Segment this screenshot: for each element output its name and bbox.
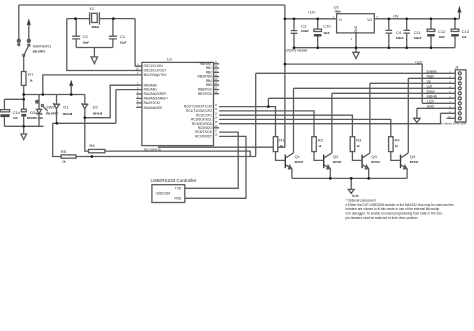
wire crystal rail xyxy=(67,18,135,20)
ground (crystal) xyxy=(91,48,97,64)
svg-text:D3: D3 xyxy=(30,110,36,115)
pin RB1 xyxy=(206,65,219,70)
svg-text:R2: R2 xyxy=(318,137,324,142)
wire J1 row7 xyxy=(422,102,455,104)
svg-text:+12V: +12V xyxy=(308,10,316,14)
svg-text:BC547: BC547 xyxy=(371,160,380,164)
pin RB3/PGM xyxy=(198,74,220,79)
pin RB0/INT xyxy=(200,61,219,66)
wire switch common to R7 xyxy=(23,56,25,71)
svg-text:+5V: +5V xyxy=(393,15,400,19)
node J1 pin labels xyxy=(427,70,437,109)
capacitor C10 xyxy=(314,19,331,48)
wire RC7 to converter RXD xyxy=(185,136,246,198)
wire RC3 to R4 xyxy=(219,119,391,136)
svg-text:RA0/AN0: RA0/AN0 xyxy=(144,83,158,87)
ground (emitter rail) xyxy=(348,178,354,193)
svg-text:1k: 1k xyxy=(318,144,322,148)
wire switch throw 1 drop xyxy=(18,5,20,39)
svg-text:R6: R6 xyxy=(89,143,95,148)
svg-text:10nF: 10nF xyxy=(439,35,446,39)
resistor R2 xyxy=(312,137,324,152)
capacitor C11 xyxy=(403,19,421,48)
pin RC4/SDI/SDA xyxy=(192,121,218,126)
svg-text:1k: 1k xyxy=(62,159,66,163)
svg-text:J1: J1 xyxy=(455,65,460,70)
resistor R1 xyxy=(273,137,285,152)
regulator U2 7805 xyxy=(333,4,379,40)
pin OSC2/CLKOUT xyxy=(136,68,166,73)
svg-text:# Either the DLP-USB232M modul: # Either the DLP-USB232M module or the M… xyxy=(346,203,454,207)
svg-text:R4: R4 xyxy=(395,137,401,142)
transistor Q1 xyxy=(276,152,304,179)
svg-text:RA3/AN3/VREF+: RA3/AN3/VREF+ xyxy=(144,97,169,101)
svg-text:7805: 7805 xyxy=(335,10,342,14)
wire J1 row4 from Q1 xyxy=(294,88,456,153)
power flag +5V above D1/D2 xyxy=(69,80,73,95)
wire top +12V rail xyxy=(19,4,285,6)
wire left branch to C14 xyxy=(4,98,23,100)
wire MCLR run xyxy=(43,75,142,95)
svg-text:U2: U2 xyxy=(334,4,340,9)
svg-text:1nF: 1nF xyxy=(462,35,467,39)
node notes text xyxy=(346,194,454,220)
svg-text:MCLR/Vpp/THV: MCLR/Vpp/THV xyxy=(144,73,168,77)
svg-text:Enable: Enable xyxy=(427,70,437,74)
svg-text:Q3: Q3 xyxy=(371,154,377,159)
svg-text:1k: 1k xyxy=(30,78,34,82)
svg-text:C13: C13 xyxy=(462,29,470,34)
svg-text:C10: C10 xyxy=(323,24,331,29)
svg-text:1nF: 1nF xyxy=(13,116,18,120)
pin RC3/SCK/SCL xyxy=(191,117,218,122)
wire +12V feed row to J1 pin7 xyxy=(285,19,422,147)
wire OSC2 route xyxy=(67,19,142,71)
wire emitter rail xyxy=(292,177,407,179)
resistor R7 xyxy=(21,72,34,86)
svg-text:pin-headers must be switched t: pin-headers must be switched to their ot… xyxy=(346,216,419,220)
svg-text:Left: Left xyxy=(427,85,432,89)
svg-text:1k: 1k xyxy=(395,144,399,148)
svg-text:R5: R5 xyxy=(61,149,67,154)
svg-text:Down: Down xyxy=(427,90,435,94)
pin RB2 xyxy=(206,70,219,75)
svg-text:RA1/AN1: RA1/AN1 xyxy=(144,88,158,92)
wire R5 output line xyxy=(76,156,256,158)
node J1 pin numbers xyxy=(448,71,451,119)
svg-text:R3: R3 xyxy=(356,137,362,142)
switch SW/HDR1 xyxy=(17,39,52,56)
pin MCLR/Vpp/THV xyxy=(137,72,167,77)
pin RB6/PGC xyxy=(198,87,219,92)
wire bottom left rail xyxy=(4,125,43,127)
capacitor C12 xyxy=(427,19,446,48)
capacitor C1 xyxy=(109,19,127,48)
pin RA1/AN1 xyxy=(137,87,157,92)
wire D1 bottom rail xyxy=(53,122,116,124)
pin RB4 xyxy=(206,78,219,83)
svg-text:USB232M: USB232M xyxy=(156,191,171,195)
svg-text:100uF: 100uF xyxy=(396,36,404,40)
svg-text:10pF: 10pF xyxy=(120,40,127,44)
wire RC4 long run xyxy=(219,123,440,125)
connector J1 xyxy=(455,65,466,122)
wire lower link line xyxy=(158,146,285,148)
wire J1 row6 branch xyxy=(268,98,455,106)
svg-text:100nF: 100nF xyxy=(414,36,422,40)
wire J1 row5 from Q2 xyxy=(332,93,455,153)
wire regulator GND pin xyxy=(355,33,357,48)
svg-text:10nF: 10nF xyxy=(323,31,330,35)
wire RC1 to R2 xyxy=(219,111,314,137)
svg-text:1N4148: 1N4148 xyxy=(93,111,103,115)
svg-text:Up: Up xyxy=(427,80,431,84)
wire C1 C2 ground rail xyxy=(76,47,113,49)
pin RA3/AN3/VREF+ xyxy=(136,96,168,101)
svg-text:RA5/AN4/SS: RA5/AN4/SS xyxy=(144,106,162,110)
pin RC5/SDO xyxy=(198,125,219,130)
wire +12V rail to regulator xyxy=(285,18,337,20)
capacitor (input filter) xyxy=(21,95,26,127)
svg-text:PIC16F876: PIC16F876 xyxy=(144,148,161,152)
svg-text:RB5: RB5 xyxy=(206,83,212,87)
wire RC6 to converter TXD xyxy=(185,132,238,188)
svg-text:BC547: BC547 xyxy=(333,160,342,164)
wire J1 row1 Enable xyxy=(256,73,456,156)
wire +5V rail xyxy=(374,18,459,20)
ground (power input) xyxy=(21,126,27,139)
svg-text:RA2/AN2/VREF-: RA2/AN2/VREF- xyxy=(144,92,168,96)
svg-text:USB/RS232 Controller: USB/RS232 Controller xyxy=(151,178,197,183)
svg-text:+12V: +12V xyxy=(427,100,435,104)
svg-text:Q1: Q1 xyxy=(295,154,301,159)
transistor Q2 xyxy=(314,152,342,179)
svg-text:GND: GND xyxy=(427,104,435,108)
transistor Q4 xyxy=(391,152,419,179)
svg-text:RB7/PGD: RB7/PGD xyxy=(198,92,213,96)
ground (J1) xyxy=(414,108,420,122)
svg-text:BC547: BC547 xyxy=(295,160,304,164)
svg-text:4MHz: 4MHz xyxy=(91,25,100,29)
crystal X1 xyxy=(89,6,100,29)
pin RC6/TX/CK xyxy=(195,129,218,134)
svg-text:X1: X1 xyxy=(89,6,95,11)
svg-text:BC547: BC547 xyxy=(410,160,419,164)
svg-text:TXD: TXD xyxy=(175,186,182,190)
zener D2 xyxy=(82,95,103,118)
svg-text:1N4148: 1N4148 xyxy=(63,112,73,116)
wire RA1 riser xyxy=(116,90,142,124)
svg-text:RC7/RX/DT: RC7/RX/DT xyxy=(195,135,212,139)
resistor R3 xyxy=(350,137,362,152)
switch SW2 xyxy=(36,100,59,115)
power flag +12V at switch xyxy=(27,18,31,39)
wire R6 left leg xyxy=(85,118,89,151)
pin RC0/T1OSO/T1CKI xyxy=(184,104,218,109)
svg-text:RA4/T0CKI: RA4/T0CKI xyxy=(144,101,160,105)
svg-text:ICD debugger. To enable in-cir: ICD debugger. To enable in-circuit progr… xyxy=(346,212,443,216)
svg-text:C2: C2 xyxy=(83,34,89,39)
svg-text:R1: R1 xyxy=(279,137,285,142)
svg-text:C12: C12 xyxy=(438,29,446,34)
power flag +5V top right xyxy=(458,6,462,19)
resistor R6 xyxy=(89,143,105,153)
svg-text:1k: 1k xyxy=(357,144,361,148)
svg-text:1k: 1k xyxy=(280,144,284,148)
pin RC2/CCP1 xyxy=(196,112,218,117)
svg-text:C3: C3 xyxy=(301,24,307,29)
wire J1 row9 from RC4 xyxy=(441,113,456,123)
wire OSC1 route xyxy=(135,19,142,67)
wire J1 row8 GND xyxy=(417,107,455,109)
svg-text:+12V: +12V xyxy=(415,60,423,64)
svg-text:Q4: Q4 xyxy=(410,154,416,159)
svg-text:Note:: Note: xyxy=(352,194,360,198)
svg-text:100uF: 100uF xyxy=(301,29,309,33)
svg-text:C14: C14 xyxy=(13,110,21,115)
svg-text:C4: C4 xyxy=(396,30,402,35)
zener D3 xyxy=(27,95,43,127)
svg-text:RXD: RXD xyxy=(174,197,181,201)
svg-text:C11: C11 xyxy=(414,30,422,35)
svg-text:BZV85C 12V: BZV85C 12V xyxy=(27,116,43,120)
svg-text:C1: C1 xyxy=(120,34,126,39)
wire J1 row2 from Q4 xyxy=(408,78,455,153)
capacitor C13 xyxy=(451,19,470,48)
pin RC7/RX/DT xyxy=(195,134,218,139)
pin RA0/AN0 xyxy=(137,82,157,87)
pin OSC1/CLKIN xyxy=(136,63,163,68)
svg-text:10pF: 10pF xyxy=(83,40,90,44)
svg-text:OSC1/CLKIN: OSC1/CLKIN xyxy=(144,64,164,68)
pin RC1/T1OSI/CCP2 xyxy=(186,108,218,113)
wire R7 to +5V rail xyxy=(23,85,25,94)
resistor R5 xyxy=(61,149,76,163)
wire J1 row10 stub xyxy=(447,117,456,119)
svg-text:SW/HDR1: SW/HDR1 xyxy=(33,44,52,49)
svg-text:To Yaesu 8 Pin DIN: To Yaesu 8 Pin DIN xyxy=(440,122,467,126)
svg-text:VI: VI xyxy=(339,18,342,22)
svg-text:VO: VO xyxy=(367,18,372,22)
svg-text:U1: U1 xyxy=(167,57,173,62)
svg-text:D2: D2 xyxy=(93,105,99,110)
svg-text:12V(9V) Header: 12V(9V) Header xyxy=(285,48,309,52)
wire top ground rail xyxy=(294,47,455,49)
wire D2 to RA0 xyxy=(85,85,142,118)
svg-text:Right: Right xyxy=(427,75,435,79)
capacitor C4 xyxy=(386,19,404,48)
transistor Q3 xyxy=(352,152,380,179)
pin RA4/T0CKI xyxy=(136,100,160,105)
capacitor C3 xyxy=(291,19,309,48)
svg-text:D1: D1 xyxy=(63,105,69,110)
wire J1 row3 from Q3 xyxy=(370,83,455,153)
node junction dots xyxy=(22,17,456,179)
svg-text:RB1: RB1 xyxy=(206,66,212,70)
resistor R4 xyxy=(389,137,401,152)
svg-text:Q2: Q2 xyxy=(333,154,339,159)
USB/RS232 converter U3 xyxy=(151,178,197,203)
svg-text:R7: R7 xyxy=(28,72,34,77)
pin RA2/AN2/VREF- xyxy=(136,91,167,96)
svg-text:SW-SPDT: SW-SPDT xyxy=(33,50,46,54)
pin RB5 xyxy=(206,82,219,87)
ground (regulator) xyxy=(353,48,359,59)
svg-text:A(B+B): A(B+B) xyxy=(427,95,437,99)
wire left rail y=94.5 xyxy=(24,94,85,96)
svg-text:* Optional component: * Optional component xyxy=(346,198,376,202)
op-amp U1 PIC16F876 xyxy=(142,57,214,152)
svg-text:OSC2/CLKOUT: OSC2/CLKOUT xyxy=(144,69,167,73)
svg-text:GND: GND xyxy=(354,25,358,33)
wire R5 left leg xyxy=(53,123,61,156)
wire RC0 to R1 and J1 row6 branch xyxy=(219,107,275,137)
wire R6 output line xyxy=(105,151,250,156)
wire top rail drop to +12V rail xyxy=(284,5,286,19)
svg-text:headers are chosen to fit this: headers are chosen to fit this mode or u… xyxy=(346,207,440,211)
wire RC2 to R3 xyxy=(219,115,352,137)
capacitor C14 xyxy=(0,99,20,126)
pin RB7/PGD xyxy=(198,91,219,96)
pin RA5/AN4/SS xyxy=(136,105,162,111)
zener D1 xyxy=(53,95,72,124)
capacitor C2 xyxy=(72,19,89,48)
